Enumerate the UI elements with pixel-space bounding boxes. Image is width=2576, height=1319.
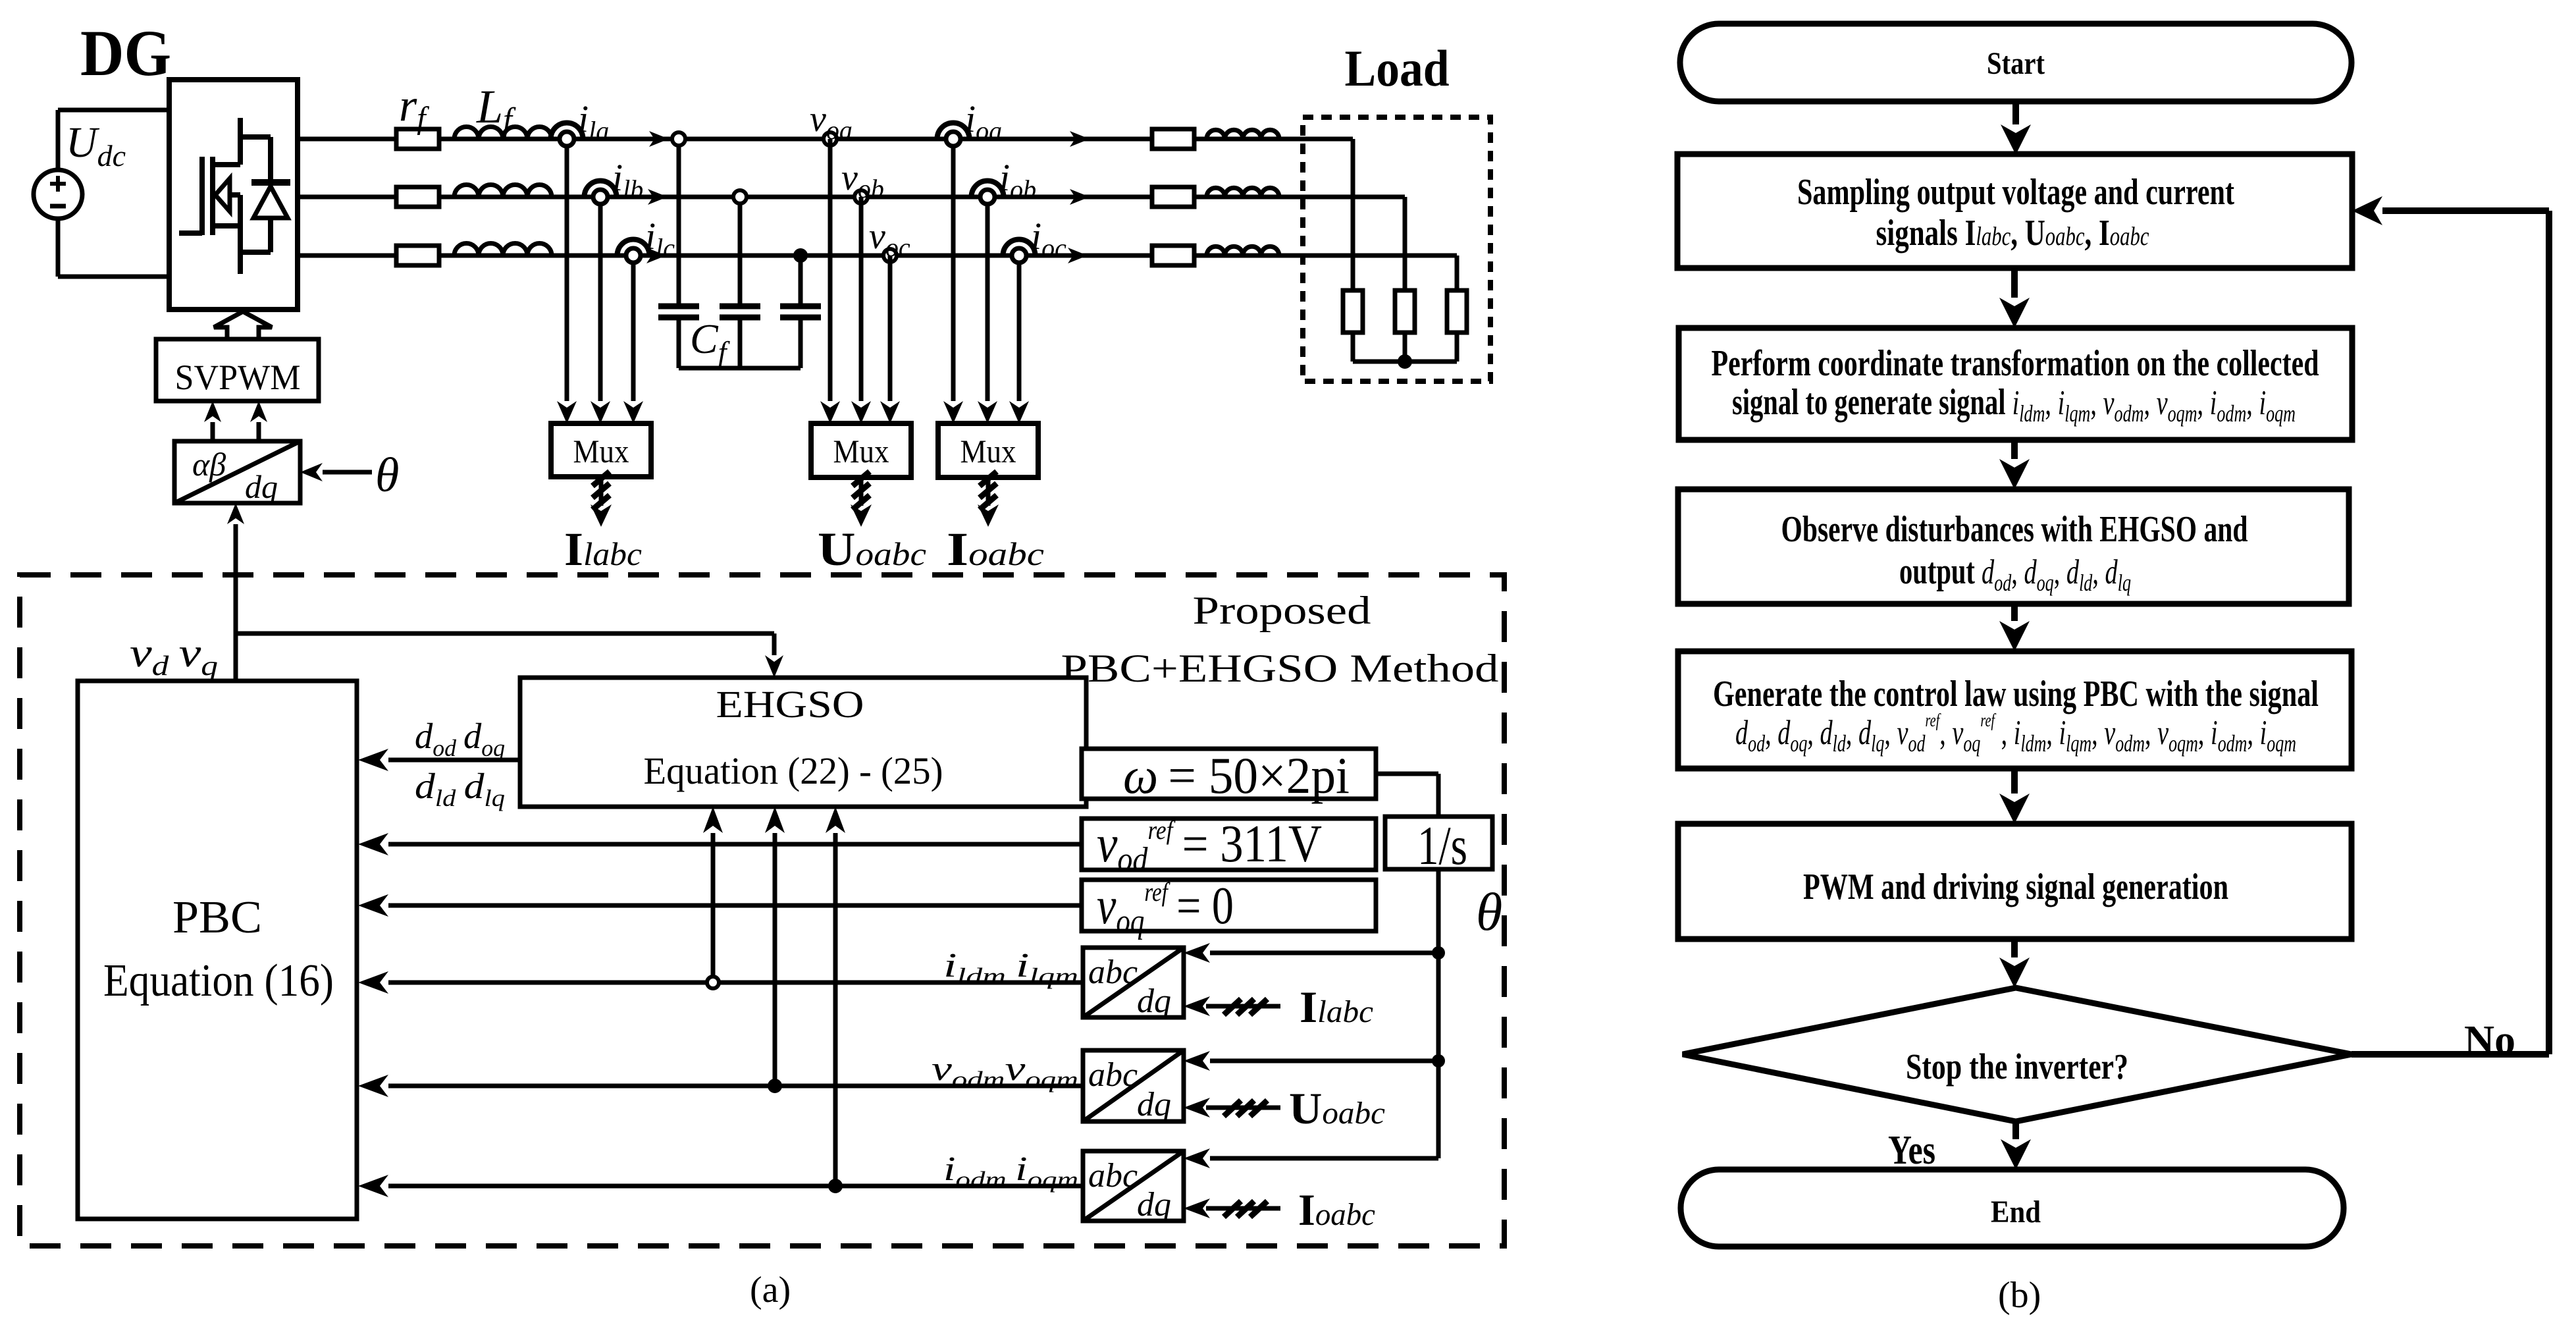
capacitor Cf phase a [658, 304, 699, 310]
svg-text:Perform coordinate transformat: Perform coordinate transformation on the… [1712, 343, 2319, 384]
abc-dq transform block 2 (output voltages) [1083, 1050, 1184, 1121]
flow arrow transform to observe [2011, 440, 2018, 459]
transistor Q1 (MOSFET symbol) [179, 230, 202, 236]
integrator block 1/s [1385, 817, 1492, 869]
load neutral node [1398, 354, 1412, 369]
current sensor ila [551, 123, 583, 140]
current sensor ilc [618, 240, 650, 256]
proposed method dashed box [20, 575, 1504, 1246]
wire Udc bottom to inverter [58, 275, 170, 279]
SVPWM block [156, 339, 319, 401]
svg-text:abc: abc [1088, 954, 1138, 991]
voq reference block [1082, 880, 1376, 931]
theta input arrow to alpha-beta-dq [323, 470, 372, 475]
flowchart end terminal [1681, 1170, 2344, 1247]
node voa [824, 132, 837, 146]
current sensor ioa [937, 123, 970, 140]
Uoabc input to abc-dq 2 [1206, 1106, 1280, 1110]
wire vd vq from PBC to transform [234, 524, 238, 681]
svg-text:Equation (16): Equation (16) [103, 956, 334, 1006]
wire ildm ilqm to PBC [388, 981, 1083, 985]
svg-text:Mux: Mux [573, 433, 629, 470]
voltage source Udc [56, 110, 61, 170]
flowchart process sampling [1677, 154, 2352, 268]
flowchart start terminal [1680, 24, 2352, 101]
node vob [854, 190, 868, 203]
arrow phase a [649, 131, 669, 147]
wire omega to 1/s [1376, 772, 1438, 776]
svg-text:Start: Start [1987, 46, 2045, 81]
load series resistor c [1152, 246, 1194, 265]
wire voq ref to PBC [388, 903, 1082, 908]
svg-text:dq: dq [1137, 1186, 1171, 1224]
wire ilc to Mux [631, 263, 636, 401]
svg-text:(a): (a) [750, 1270, 791, 1310]
svg-text:abc: abc [1088, 1056, 1138, 1094]
svg-text:DG: DG [80, 16, 171, 90]
wire EHGSO to PBC (disturbance outputs) [388, 758, 520, 763]
svg-text:θ: θ [375, 448, 399, 502]
svg-text:abc: abc [1088, 1157, 1138, 1195]
capacitor Cf phase b [720, 304, 760, 310]
arrow phase b [648, 189, 668, 205]
svg-text:Observe disturbances with EHGS: Observe disturbances with EHGSO and [1781, 509, 2248, 550]
resistor rf phase b [396, 187, 439, 207]
load series inductor c [1207, 246, 1279, 256]
PBC block [78, 681, 357, 1219]
Mux block II (voltages uoabc) [811, 423, 911, 477]
svg-text:Proposed: Proposed [1193, 589, 1371, 632]
load dashed box [1303, 117, 1490, 381]
Mux II output with bundle mark [859, 477, 864, 506]
flowchart process observe disturbances [1678, 489, 2349, 604]
arrow phase b to load [1070, 189, 1090, 205]
wire alpha-beta-dq to SVPWM (left) [211, 422, 215, 441]
svg-text:αβ: αβ [192, 446, 226, 483]
wire vd vq branch to EHGSO [236, 632, 774, 636]
EHGSO block [520, 678, 1086, 807]
wire vod ref to PBC [388, 842, 1082, 847]
svg-text:(b): (b) [1998, 1275, 2041, 1316]
phase line a [298, 137, 1353, 142]
arrow phase a to load [1070, 131, 1090, 147]
load wire b down [1403, 197, 1407, 290]
current sensor ioc [1003, 240, 1036, 256]
alpha-beta to dq transform block [174, 441, 300, 503]
node Cf tap b [738, 197, 743, 304]
Mux III output with bundle mark [986, 477, 991, 506]
svg-text:Mux: Mux [960, 433, 1016, 470]
svg-text:Stop the inverter?: Stop the inverter? [1906, 1046, 2128, 1087]
inductor Lf phase c [454, 244, 552, 256]
svg-text:Generate the control law using: Generate the control law using PBC with … [1713, 674, 2319, 714]
load resistor R3 [1447, 290, 1467, 333]
diode D1 (freewheeling) [240, 134, 271, 140]
inverter block [169, 80, 298, 310]
wire iodm branch to EHGSO [833, 833, 838, 1186]
capacitor Cf phase c [780, 304, 821, 310]
wire ioc to Mux [1017, 263, 1022, 401]
svg-text:signals Ilabc, Uoabc, Ioabc: signals Ilabc, Uoabc, Ioabc [1876, 213, 2149, 254]
svg-text:dq: dq [245, 468, 278, 505]
svg-text:dq: dq [1137, 1086, 1171, 1123]
Ilabc input to abc-dq 1 [1206, 1004, 1280, 1009]
resistor rf phase c [396, 246, 439, 265]
load resistor R1 [1343, 290, 1363, 333]
load wire a down [1351, 139, 1355, 290]
svg-text:End: End [1991, 1195, 2041, 1229]
load series inductor b [1207, 188, 1279, 197]
wire vodm branch to EHGSO [773, 833, 777, 1086]
wire ioa to Mux [951, 146, 956, 401]
wire iob to Mux [986, 204, 990, 401]
wire ilb to Mux [598, 204, 603, 401]
wire voa to Mux [828, 139, 833, 401]
arrow phase c to load [1068, 248, 1088, 263]
abc-dq transform block 1 (inverter currents) [1083, 948, 1184, 1017]
Mux block I (currents ilabc) [551, 423, 651, 477]
Mux block III (currents ioabc) [938, 423, 1038, 477]
node Cf tap c [799, 256, 803, 304]
inductor Lf phase a [454, 127, 552, 139]
flowchart process PWM generation [1678, 824, 2352, 939]
svg-text:PWM and driving signal generat: PWM and driving signal generation [1803, 867, 2228, 907]
svg-text:SVPWM: SVPWM [175, 358, 301, 397]
theta wire to abc-dq 2 [1210, 1059, 1438, 1063]
Ioabc input to abc-dq 3 [1206, 1206, 1280, 1211]
resistor rf phase a [396, 129, 439, 149]
wire vob to Mux [859, 197, 864, 401]
flow arrow decision to end [2012, 1121, 2019, 1139]
capacitor common rail [679, 366, 801, 371]
load series resistor b [1152, 187, 1194, 207]
wire voc to Mux [888, 256, 893, 401]
load series inductor a [1207, 130, 1279, 139]
svg-text:ω = 50×2pi: ω = 50×2pi [1123, 747, 1350, 804]
flow arrow sampling to transform [2011, 268, 2018, 298]
load resistor R2 [1395, 290, 1415, 333]
flow arrow control law to PWM [2011, 768, 2018, 794]
load wire c down [1455, 256, 1459, 290]
theta distribution wire [1436, 869, 1441, 1158]
svg-text:θ: θ [1476, 882, 1502, 942]
svg-text:Sampling output voltage and cu: Sampling output voltage and current [1797, 172, 2234, 213]
svg-text:PBC: PBC [172, 892, 262, 943]
wire ila to Mux [565, 146, 569, 401]
load series resistor a [1152, 129, 1194, 149]
node voc [883, 249, 897, 262]
svg-text:EHGSO: EHGSO [716, 683, 864, 726]
svg-text:dod, doq, dld, dlq, vodref, vo: dod, doq, dld, dlq, vodref, voqref , ild… [1735, 711, 2296, 757]
svg-text:1/s: 1/s [1417, 815, 1467, 876]
inductor Lf phase b [454, 185, 552, 198]
arrow phase c [646, 248, 666, 263]
vod reference block [1082, 819, 1376, 870]
svg-text:output dod, doq, dld, dlq: output dod, doq, dld, dlq [1899, 551, 2131, 596]
flow arrow observe to control law [2011, 604, 2018, 621]
wire vodm voqm to PBC [388, 1084, 1083, 1089]
svg-text:Yes: Yes [1888, 1128, 1935, 1173]
current sensor ilb [585, 181, 617, 198]
Mux I output with bundle mark [599, 477, 604, 506]
current sensor iob [972, 181, 1004, 198]
svg-text:Mux: Mux [833, 433, 889, 470]
flowchart decision stop inverter [1683, 988, 2352, 1121]
wire iodm ioqm to PBC [388, 1184, 1083, 1189]
flow arrow start to sampling [2012, 101, 2019, 124]
load star wires [1351, 333, 1355, 362]
feedback wire decision to sampling [2352, 1051, 2549, 1058]
svg-text:Load: Load [1345, 40, 1450, 97]
gate drive block arrow SVPWM to inverter [214, 311, 272, 339]
wire alpha-beta-dq to SVPWM (right) [257, 422, 261, 441]
svg-text:PBC+EHGSO Method: PBC+EHGSO Method [1061, 647, 1499, 690]
load neutral rail [1353, 360, 1457, 364]
flowchart process generate control law [1678, 651, 2352, 768]
wire Udc top to inverter [58, 108, 170, 113]
abc-dq transform block 3 (output currents) [1083, 1151, 1184, 1221]
node Cf tap a [677, 139, 681, 304]
phase line c [298, 254, 1457, 258]
omega constant block [1082, 749, 1376, 799]
svg-text:signal to generate signal ildm: signal to generate signal ildm, ilqm, vo… [1732, 382, 2296, 427]
wire ildm branch to EHGSO [711, 833, 716, 983]
flowchart process coordinate transformation [1679, 328, 2352, 440]
svg-text:Equation (22) - (25): Equation (22) - (25) [644, 749, 943, 792]
theta wire to abc-dq 3 [1210, 1156, 1438, 1161]
phase line b [298, 195, 1405, 200]
theta wire to abc-dq 1 [1210, 951, 1438, 956]
flow arrow PWM to decision [2011, 939, 2018, 957]
svg-text:dq: dq [1137, 983, 1171, 1020]
